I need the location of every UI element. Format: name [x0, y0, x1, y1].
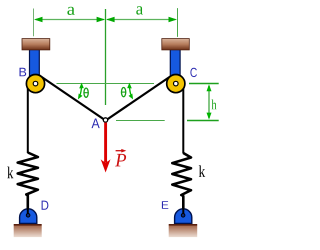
hanger bar B [30, 50, 40, 85]
ground base D [14, 226, 42, 238]
arrowhead right-in [106, 17, 115, 22]
h dimension arrow [208, 86, 210, 118]
pin E [181, 214, 185, 218]
dimension line a (left span) [36, 19, 105, 21]
ceiling mount C [162, 39, 190, 50]
anchor dome E [175, 209, 192, 224]
label theta left [84, 88, 89, 97]
label C [190, 68, 197, 77]
horizontal reference h top segment [189, 83, 219, 85]
label P vector [115, 154, 126, 167]
arrowhead left-in [97, 17, 106, 22]
cable B to A [38, 75, 106, 121]
horizontal line at A level [116, 120, 165, 122]
cable below pulley B [27, 80, 29, 153]
ceiling mount B [22, 39, 50, 50]
cable below pulley C [182, 80, 184, 154]
force P arrow [104, 123, 107, 162]
angle arrow left [80, 88, 81, 95]
cable into dome E [182, 208, 184, 215]
extension line left (tick over mount B) [33, 9, 35, 37]
hanger bar C [170, 50, 180, 85]
label k left [7, 167, 13, 179]
label h [212, 100, 217, 110]
dimension line a (right span) [107, 19, 176, 21]
arrowhead right-out [169, 17, 178, 22]
angle arrow right [130, 88, 131, 95]
label theta right [121, 88, 126, 97]
cable into dome D [27, 208, 29, 215]
extension line right (tick over mount C) [177, 8, 179, 37]
spring k right [172, 153, 191, 213]
anchor dome D [20, 209, 37, 224]
node A [103, 118, 107, 122]
horizontal reference h bottom segment [187, 120, 219, 122]
label a left [67, 7, 74, 15]
label a right [136, 6, 143, 14]
spring k left [18, 153, 38, 214]
label B [20, 68, 27, 77]
pulley B [26, 75, 44, 93]
arrowhead left-out [34, 17, 43, 22]
label A [92, 119, 100, 129]
cable C to A [106, 75, 174, 121]
ground base E [169, 226, 198, 238]
label k right [199, 165, 205, 177]
pulley C [167, 75, 185, 93]
horizontal reference line at pulley level [57, 83, 155, 85]
label D [42, 201, 49, 210]
centerline [105, 9, 107, 105]
pin D [26, 214, 30, 218]
label E [162, 201, 168, 209]
